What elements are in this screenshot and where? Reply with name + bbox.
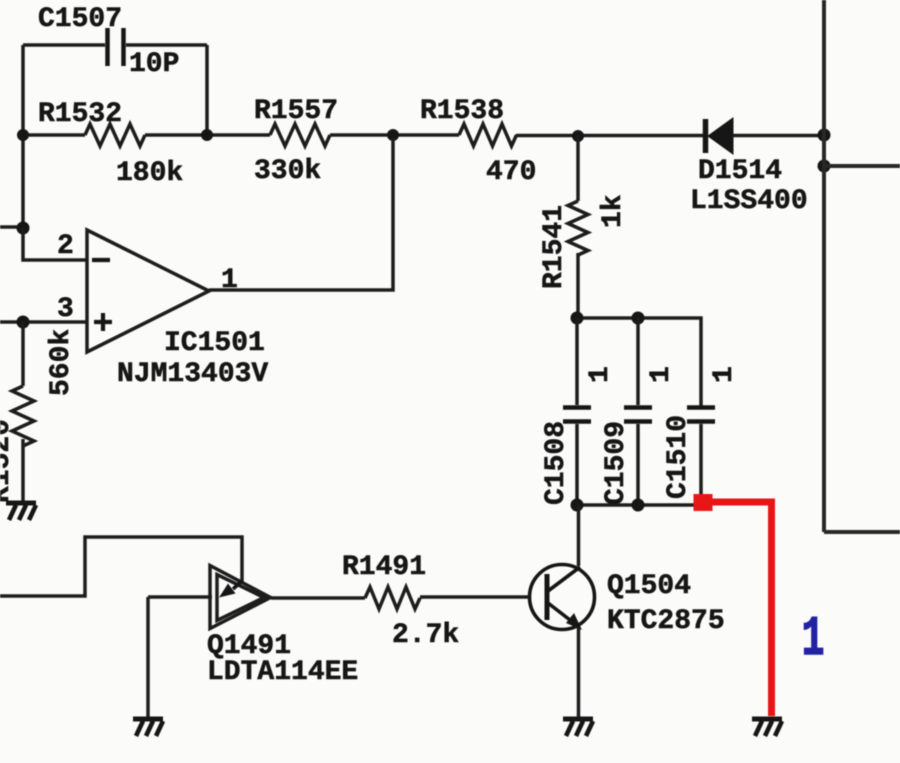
wire staircase from left edge: [0, 537, 242, 596]
wire base Q1504: [420, 595, 529, 599]
resistor R1557: [270, 124, 330, 146]
wire top loop right vertical: [205, 45, 209, 135]
svg-text:C1508: C1508: [541, 421, 572, 505]
op-amp plus sign: [94, 313, 112, 331]
svg-text:IC1501: IC1501: [164, 328, 265, 359]
wire cap bottom rail: [577, 503, 695, 507]
transistor Q1504: [530, 565, 595, 631]
svg-text:1: 1: [585, 366, 616, 383]
svg-text:Q1504: Q1504: [607, 571, 691, 602]
ground under Q1504: [563, 719, 593, 736]
junction right bus lower: [818, 160, 831, 173]
svg-text:10P: 10P: [129, 49, 179, 80]
svg-text:L1SS400: L1SS400: [690, 186, 808, 217]
svg-text:R1541: R1541: [539, 205, 570, 289]
diode D1514: [706, 118, 734, 154]
resistor R1491: [365, 587, 420, 609]
junction op-amp output node: [387, 129, 399, 141]
transistor Q1491 outer triangle: [210, 566, 271, 629]
wire resistor to ground left: [21, 439, 25, 502]
Q1491 emitter arrow: [219, 581, 242, 598]
svg-text:2: 2: [57, 231, 74, 262]
junction R1541 top: [572, 130, 584, 142]
resistor R1532: [85, 124, 145, 146]
wire Q1491 base to ground: [146, 597, 150, 718]
wire base stub Q1491: [148, 595, 212, 599]
wire collector Q1504: [577, 505, 581, 566]
svg-text:C1509: C1509: [601, 421, 632, 505]
junction cap bottom C1508: [571, 499, 584, 512]
junction right bus upper: [818, 129, 831, 142]
svg-text:R1557: R1557: [254, 96, 338, 127]
wire R1541 branch vertical top: [576, 136, 580, 201]
svg-text:1: 1: [646, 366, 677, 383]
ground under Q1491: [133, 719, 163, 736]
red wire net 1: [703, 502, 772, 716]
wire left stub to inverting node: [0, 225, 23, 229]
wire right bus vertical: [822, 0, 826, 532]
wire between R1557 and R1538: [330, 133, 459, 137]
wire top cap right segment: [126, 43, 207, 47]
svg-text:C1510: C1510: [663, 415, 694, 499]
svg-text:KTC2875: KTC2875: [607, 606, 725, 637]
svg-text:R1538: R1538: [420, 96, 504, 127]
wire non-inverting node down to resistor: [21, 322, 25, 386]
junction non-inverting node: [17, 316, 30, 329]
wire right stub y166: [824, 164, 900, 168]
wire right bus corner horizontal: [824, 530, 900, 534]
svg-text:C1507: C1507: [38, 4, 122, 35]
wire left stub pin3: [0, 320, 88, 324]
wire R1491 left to Q1491: [271, 596, 365, 600]
wire emitter Q1504: [577, 628, 581, 718]
svg-text:R1520: R1520: [0, 419, 17, 503]
junction cap rail C1508: [571, 312, 584, 325]
svg-text:330k: 330k: [254, 156, 321, 187]
wire main rail y135 left: [23, 133, 85, 137]
wire between R1538 and diode: [516, 134, 703, 138]
wire inverting node to pin2: [23, 228, 88, 260]
wire top cap left segment: [23, 43, 105, 47]
capacitor C1508: [563, 318, 591, 505]
junction cap rail C1509: [632, 312, 645, 325]
capacitor C1510: [687, 408, 715, 499]
wire R1541 to cap rail: [576, 253, 580, 318]
svg-text:3: 3: [57, 294, 74, 325]
resistor R1520 (left, vertical): [12, 386, 34, 446]
junction R1532 left: [17, 129, 29, 141]
svg-text:1k: 1k: [598, 194, 629, 228]
op-amp IC1501: [87, 230, 209, 352]
wire diode to right bus: [733, 134, 824, 138]
op-amp minus sign: [92, 258, 110, 262]
svg-text:1: 1: [802, 608, 825, 671]
wire cap top rail: [577, 318, 701, 407]
capacitor C1507: [108, 28, 124, 66]
svg-text:NJM13403V: NJM13403V: [117, 359, 268, 390]
red node square: [694, 494, 713, 511]
junction cap bottom C1509: [632, 499, 645, 512]
junction inverting node: [17, 222, 30, 235]
capacitor C1509: [624, 318, 652, 505]
resistor R1541: [568, 201, 588, 255]
svg-text:D1514: D1514: [698, 156, 782, 187]
svg-text:560k: 560k: [46, 329, 77, 396]
svg-text:470: 470: [486, 157, 536, 188]
svg-text:R1491: R1491: [342, 552, 426, 583]
wire between R1532 and R1557: [145, 133, 270, 137]
svg-text:1: 1: [709, 366, 740, 383]
svg-text:LDTA114EE: LDTA114EE: [207, 657, 358, 688]
wire op-amp output: [209, 138, 393, 290]
ground left: [6, 503, 36, 520]
svg-text:R1532: R1532: [38, 99, 122, 130]
junction R1532 right: [201, 129, 213, 141]
transistor Q1491 inner triangle: [217, 575, 264, 621]
wire top feedback loop left vertical: [21, 45, 25, 228]
svg-text:2.7k: 2.7k: [392, 620, 459, 651]
svg-text:180k: 180k: [116, 158, 183, 189]
resistor R1538: [459, 124, 517, 146]
ground under red wire: [752, 719, 782, 736]
